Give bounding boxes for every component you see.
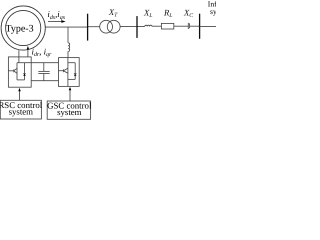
transformer XT secondary winding [107,20,120,33]
transistor Q1 RSC IGBT leg [8,63,24,80]
wire machine rotor to RSC converter [18,50,20,57]
wire inductor to resistor [152,25,161,27]
diode D2 GSC antiparallel diode [74,63,77,80]
wire bus 3 to infinite system [200,25,216,27]
svg-text:system: system [210,7,216,16]
capacitor XC series capacitor [188,23,189,29]
transistor Q2 GSC IGBT leg [59,58,76,87]
wire GSC control arrow [69,87,72,101]
wire transformer to bus 2 [120,25,145,27]
svg-text:system: system [57,107,82,117]
block RSC control system box [0,100,41,119]
capacitor C1 DC link [38,63,49,81]
node bus 2 (sending end bus) [136,16,138,38]
svg-text:system: system [9,107,34,117]
inductor XL line reactance [145,25,152,26]
node bus 3 (infinite bus) [199,14,201,39]
wire bus 1 to transformer [87,26,100,28]
wire DC link negative rail [31,80,58,82]
wire capacitor to bus 3 [190,25,200,27]
resistor RL series resistance [161,23,173,29]
diode D1 RSC antiparallel diode [23,63,26,80]
wire stator output (machine to bus 1) [45,26,88,28]
wire DC link positive rail [25,62,59,64]
wire resistor to capacitor [174,25,189,27]
block GSC control system box [47,101,90,119]
converter RSC box [8,57,31,87]
DFIG machine G1 (Type-3 wind turbine generator, outer circle) [1,6,45,50]
node stator current arrow i_ds i_qs [48,20,66,23]
node rotor current arrow i_dr i_qr [27,46,30,57]
wire junction to GSC branch [67,27,69,43]
inductor GSC filter choke [68,43,69,52]
DFIG machine G1 inner circle [6,10,41,45]
wire RSC control arrow [18,88,21,100]
wire choke to GSC converter [67,51,69,57]
svg-text:Type-3: Type-3 [5,23,33,34]
converter GSC box [59,58,80,87]
wire RSC internal top stub [18,57,20,63]
node bus 1 (wind turbine terminal bus) [87,14,89,41]
transformer XT primary winding [100,20,113,33]
